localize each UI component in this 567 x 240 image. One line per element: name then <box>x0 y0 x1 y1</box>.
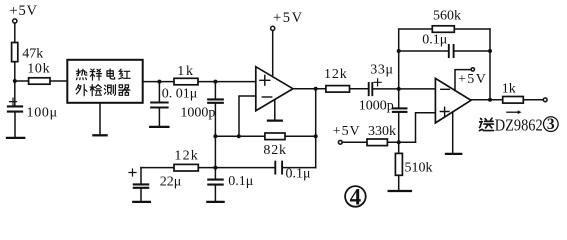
capacitor C 0.1u top <box>399 50 448 52</box>
capacitor C 0.1u horizontal <box>275 162 282 174</box>
wire <box>14 81 16 105</box>
resistor R 47k <box>12 43 18 62</box>
resistor R 10k <box>29 78 50 84</box>
svg-text:10k: 10k <box>27 62 50 77</box>
svg-text:82k: 82k <box>263 143 286 158</box>
svg-text:1k: 1k <box>177 64 195 79</box>
wire <box>15 80 68 82</box>
wire 33u to opamp2 minus <box>372 88 435 90</box>
svg-text:0.1μ: 0.1μ <box>228 174 253 189</box>
wire feedback trunk up <box>399 29 433 89</box>
node junction <box>213 80 217 84</box>
resistor R 12k lower <box>141 167 275 169</box>
svg-text:12k: 12k <box>174 148 199 163</box>
wire opamp1 output <box>293 88 369 90</box>
ground <box>389 190 411 192</box>
svg-text:0.1μ: 0.1μ <box>422 33 447 48</box>
wire detector to opamp1 plus input <box>143 81 256 83</box>
label circled 4 <box>345 186 366 207</box>
resistor R 560k <box>432 26 454 33</box>
capacitor C 1000p second <box>398 89 400 108</box>
capacitor C 100u polarized <box>8 106 22 111</box>
svg-text:47k: 47k <box>22 46 43 61</box>
svg-text:+5V: +5V <box>333 124 361 139</box>
arrow output direction <box>507 110 522 114</box>
text 器 <box>119 85 130 95</box>
text 测 <box>104 85 115 96</box>
svg-text:1000p: 1000p <box>180 106 215 121</box>
svg-text:0. 01μ: 0. 01μ <box>162 87 198 102</box>
svg-text:+5V: +5V <box>458 72 487 87</box>
capacitor C 33u polarized <box>369 83 373 95</box>
ground <box>133 201 150 203</box>
svg-text:560k: 560k <box>433 9 461 24</box>
svg-text:22μ: 22μ <box>160 175 182 190</box>
svg-text:1000p: 1000p <box>359 99 394 114</box>
svg-text:33μ: 33μ <box>370 62 393 77</box>
wire vertical to feedback <box>315 89 317 168</box>
svg-text:12k: 12k <box>324 67 348 82</box>
svg-text:DZ9862: DZ9862 <box>495 115 543 134</box>
capacitor C 22u polarized <box>140 168 142 185</box>
ground <box>150 126 168 128</box>
text 红 <box>119 69 130 79</box>
svg-text:0.1μ: 0.1μ <box>286 167 311 182</box>
ground <box>207 201 223 203</box>
capacitor C 0.1u vertical <box>214 168 216 180</box>
node junction <box>157 80 161 84</box>
wire to opamp2 plus input <box>416 113 436 143</box>
svg-text:100μ: 100μ <box>27 105 58 120</box>
wire opamp1 minus input <box>239 96 256 136</box>
op-amp U1 <box>256 67 293 111</box>
resistor R 82k feedback <box>239 135 316 137</box>
svg-text:+5V: +5V <box>273 10 304 26</box>
wire <box>14 62 16 81</box>
op-amp U2 <box>435 78 471 123</box>
text 检 <box>90 85 101 96</box>
text 电 <box>107 69 115 79</box>
resistor R 330k <box>367 139 387 146</box>
ground detector box <box>99 103 101 135</box>
svg-text:3: 3 <box>547 116 555 133</box>
resistor R 1k output <box>503 97 524 104</box>
resistor R 12k upper <box>326 86 350 93</box>
text 外 <box>76 85 87 96</box>
ground opamp2 <box>452 113 454 153</box>
text 热 <box>76 69 87 80</box>
svg-text:330k: 330k <box>368 124 396 139</box>
ground opamp1 <box>274 100 276 119</box>
label 送DZ9862(3) <box>479 118 493 130</box>
capacitor C 1000p first <box>214 82 216 100</box>
detector box 热释电红外检测器 <box>67 60 142 103</box>
svg-text:4: 4 <box>350 184 362 209</box>
wire opamp2 output <box>471 99 503 101</box>
wire <box>14 23 16 42</box>
resistor R 1k <box>174 78 198 85</box>
svg-text:+5V: +5V <box>10 3 38 19</box>
resistor R 510k <box>395 153 402 175</box>
svg-text:510k: 510k <box>405 160 433 175</box>
wire down to feedback node <box>214 103 216 168</box>
wire right feedback vertical <box>489 29 491 100</box>
ground <box>7 137 24 139</box>
node +5V opamp2 <box>471 68 474 71</box>
text 释 <box>90 69 101 80</box>
svg-text:1k: 1k <box>502 81 516 96</box>
node junction <box>13 79 17 83</box>
wire jumper <box>215 135 238 137</box>
